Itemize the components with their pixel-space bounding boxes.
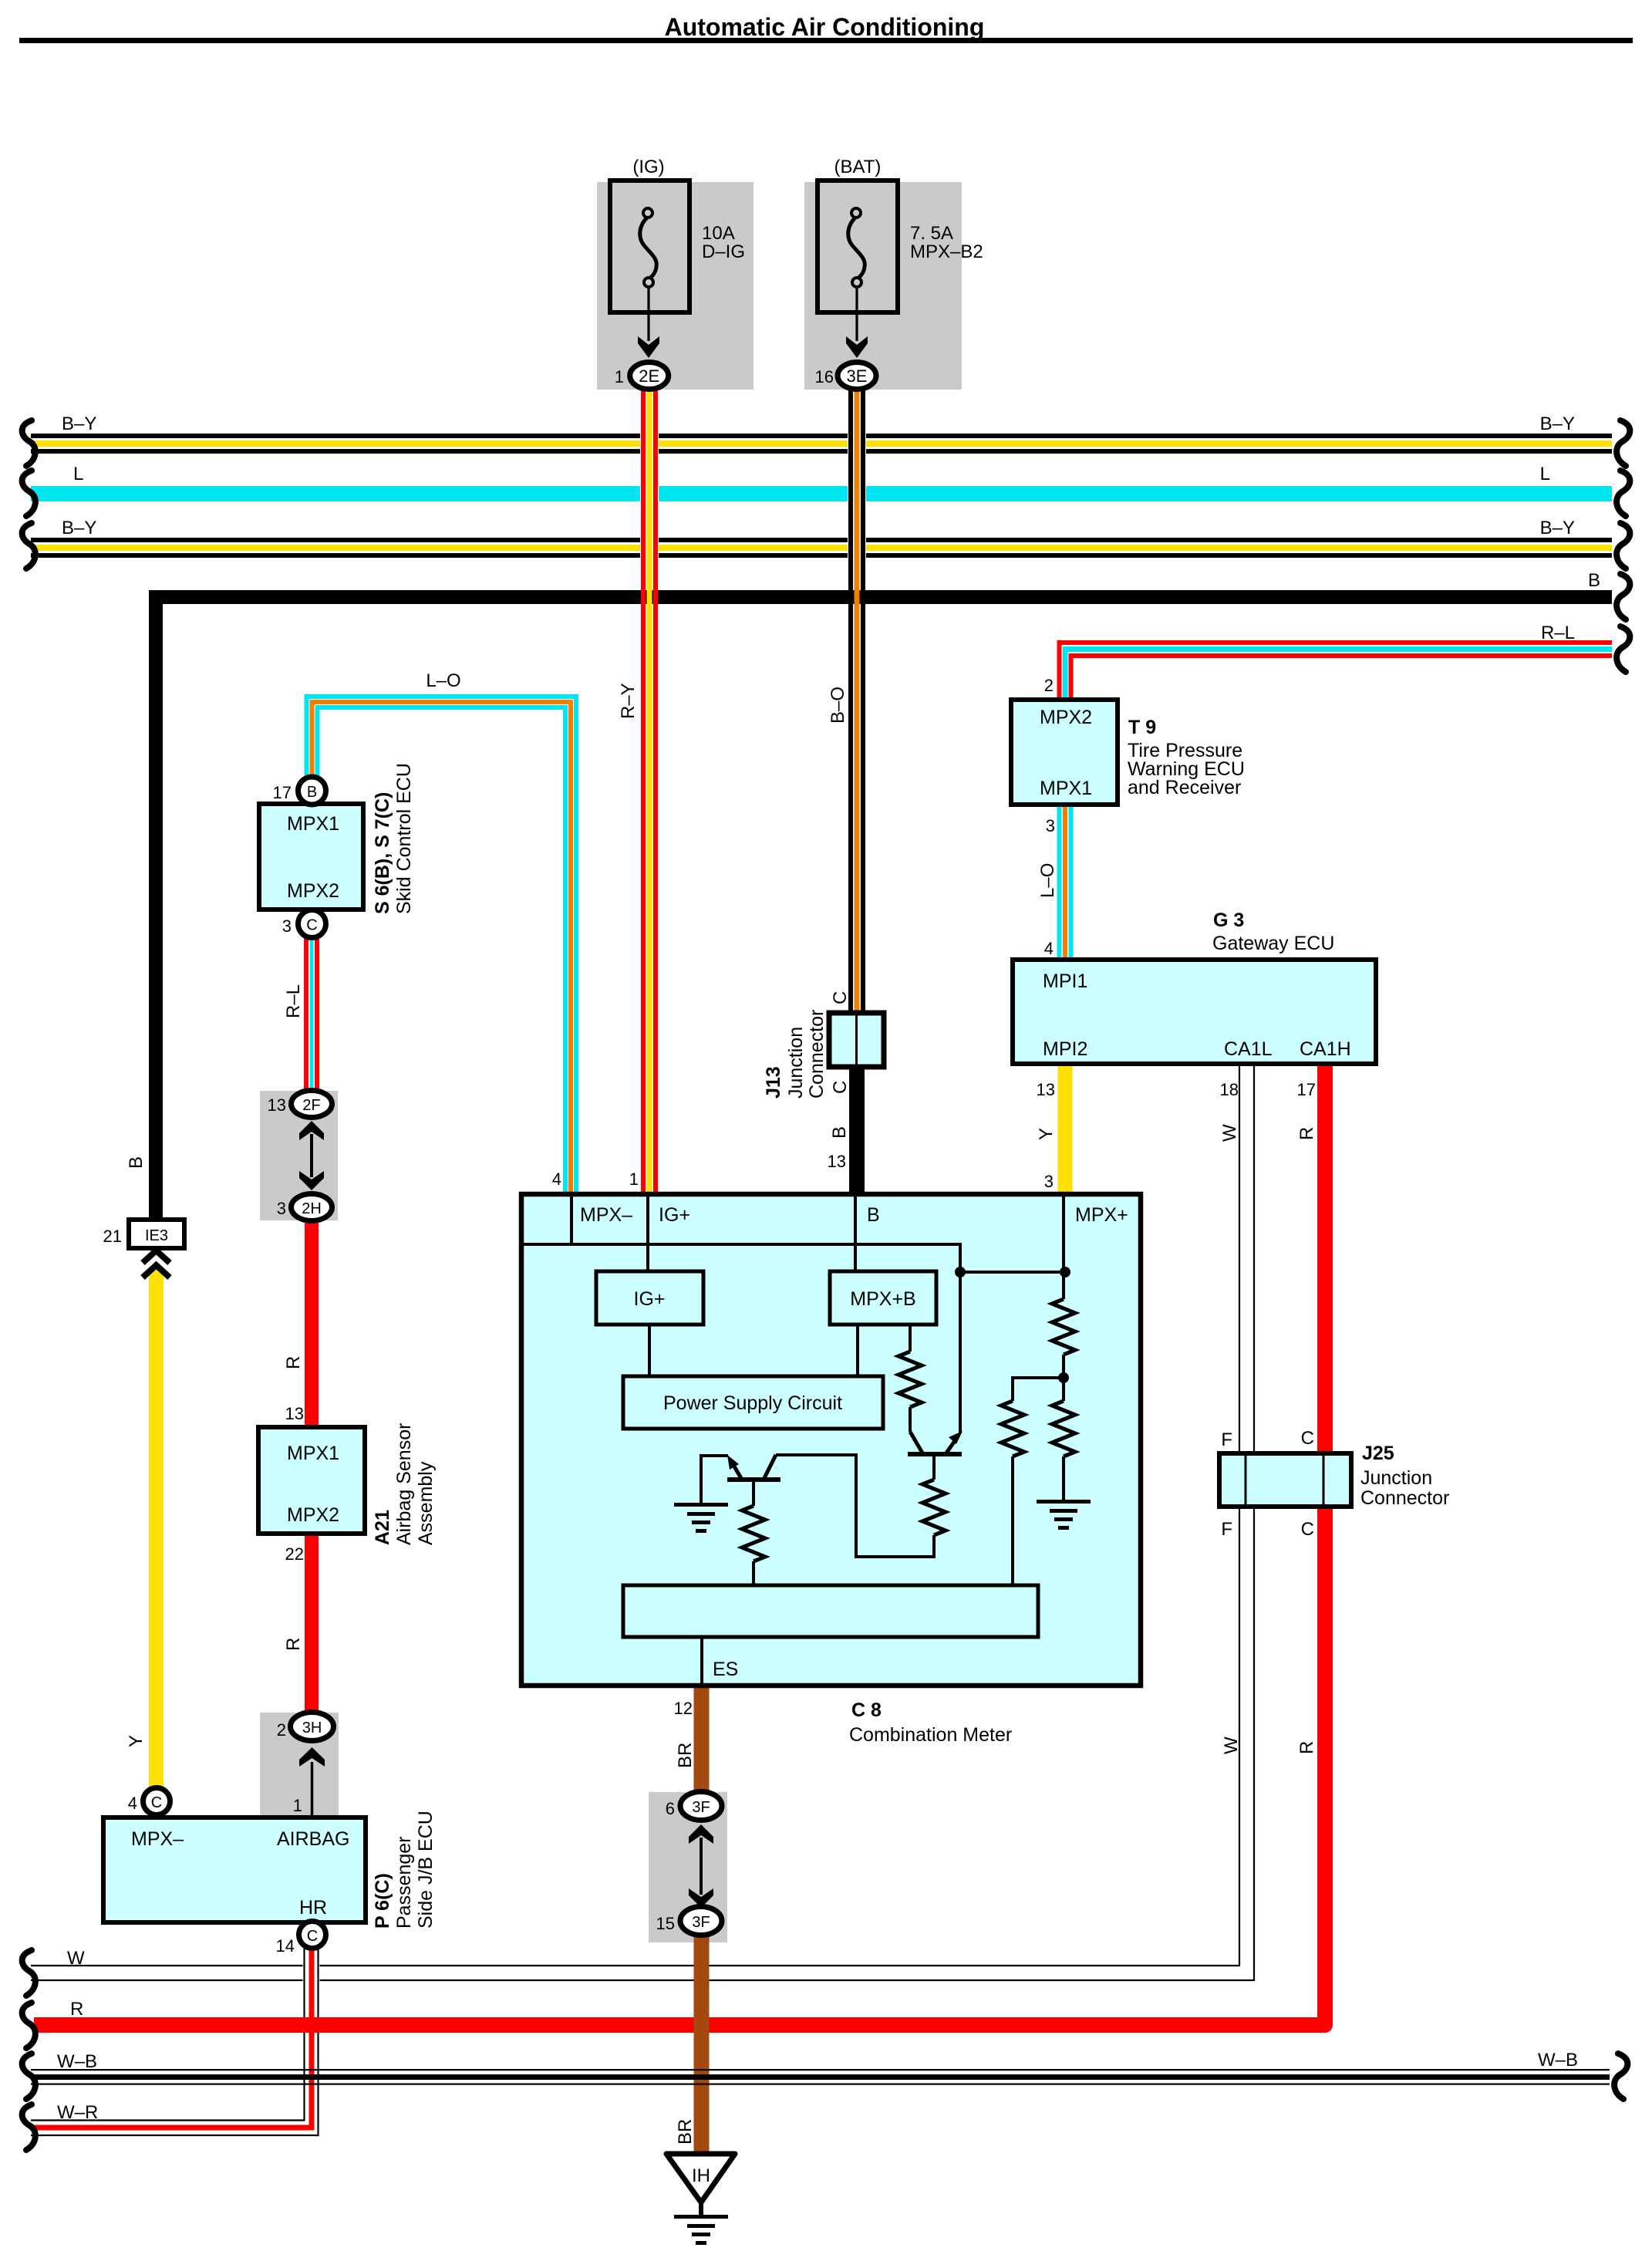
svg-text:W–B: W–B	[1538, 2050, 1578, 2071]
svg-text:G 3: G 3	[1213, 910, 1244, 931]
svg-text:B–O: B–O	[828, 687, 848, 724]
net MPX- internal path	[521, 1244, 960, 1272]
gateway ECU box G3	[1013, 960, 1376, 1064]
svg-text:3: 3	[277, 1199, 286, 1218]
svg-text:4: 4	[128, 1794, 137, 1813]
svg-text:B: B	[307, 784, 317, 801]
svg-text:B: B	[1588, 570, 1600, 591]
transistor Q2 collector with arrow to node	[946, 1436, 958, 1454]
svg-text:3H: 3H	[302, 1720, 322, 1736]
transistor Q1 base bar	[727, 1477, 780, 1482]
gray background of connector pair 2F/2H	[260, 1091, 338, 1220]
wire MPX+B box to power supply	[856, 1325, 859, 1376]
MPX+B internal box	[830, 1271, 936, 1325]
svg-text:17: 17	[1297, 1080, 1316, 1099]
svg-text:MPX1: MPX1	[287, 813, 339, 835]
svg-text:Power Supply Circuit: Power Supply Circuit	[663, 1392, 842, 1414]
IE3 connector box	[129, 1220, 184, 1248]
svg-text:B–Y: B–Y	[62, 518, 96, 538]
gray background of fuse IG	[597, 182, 754, 390]
break symbol right of bus B-Y top	[1617, 420, 1630, 466]
svg-text:MPX–: MPX–	[131, 1828, 184, 1850]
double chevron below IE3	[143, 1250, 170, 1263]
skid control ECU box S6/S7	[259, 804, 363, 910]
ground IH bars	[674, 2215, 728, 2219]
net B internal wire	[854, 1195, 857, 1271]
svg-text:A21: A21	[372, 1510, 393, 1545]
break symbol left of bus B-Y top	[22, 420, 35, 466]
svg-text:Passenger: Passenger	[393, 1836, 415, 1929]
svg-text:R–L: R–L	[283, 984, 304, 1018]
svg-text:C 8: C 8	[851, 1699, 882, 1721]
svg-text:3: 3	[1046, 816, 1055, 835]
svg-text:R: R	[1296, 1741, 1317, 1754]
wire L-O (skid ECU B to C8 MPX-)	[307, 697, 577, 1193]
svg-text:13: 13	[1037, 1080, 1055, 1099]
ground IH triangle	[666, 2154, 735, 2202]
wire R-L (skid ECU C to connector 2F)	[304, 937, 319, 1091]
wire from 3H to P6C AIRBAG	[311, 1762, 314, 1817]
wire BR (3F to IH ground)	[694, 1935, 710, 2154]
resistor MPX+ upper	[1052, 1299, 1075, 1355]
svg-text:L: L	[73, 464, 83, 484]
svg-text:2E: 2E	[639, 366, 659, 386]
net IG+ internal wire	[646, 1195, 649, 1271]
fuse IG symbol bottom terminal	[644, 278, 653, 287]
bus W (bottom, corner up to J25/CA1L)	[31, 1064, 1254, 1980]
bus B-Y (top)	[31, 434, 1612, 454]
svg-text:13: 13	[285, 1404, 304, 1423]
break symbol right of bus W-B	[1614, 2054, 1627, 2099]
svg-text:(BAT): (BAT)	[834, 157, 882, 177]
svg-text:IG+: IG+	[634, 1288, 666, 1310]
wire to middle node	[1062, 1355, 1065, 1378]
gray background of fuse BAT	[804, 182, 962, 390]
connector oval 3F bottom	[680, 1907, 722, 1936]
net MPX+ internal wire	[1062, 1195, 1065, 1299]
svg-text:MPX+B: MPX+B	[850, 1288, 915, 1310]
wire from fuse BAT to connector 3E	[855, 287, 858, 341]
svg-text:C: C	[307, 1928, 318, 1945]
break symbol right of bus R-L	[1617, 626, 1630, 672]
svg-text:B–Y: B–Y	[62, 413, 96, 434]
airbag sensor assembly box A21	[258, 1427, 365, 1534]
wire between node dots	[960, 1271, 1065, 1274]
IG+ internal box	[596, 1271, 703, 1325]
svg-text:Combination Meter: Combination Meter	[849, 1724, 1012, 1746]
svg-text:CA1H: CA1H	[1300, 1038, 1351, 1060]
wire B-O color stripes	[848, 389, 865, 1013]
resistor MPX+ lower	[1062, 1378, 1065, 1401]
arrow line 3F-3F	[700, 1838, 703, 1895]
svg-text:Gateway ECU: Gateway ECU	[1212, 933, 1334, 954]
svg-text:3F: 3F	[692, 1914, 710, 1931]
svg-text:R: R	[283, 1356, 304, 1369]
connector oval 2F	[292, 1091, 332, 1118]
bus L (cyan)	[31, 486, 1612, 501]
svg-text:Y: Y	[126, 1735, 147, 1747]
connector circle C of skid ECU	[298, 910, 326, 938]
arrow up inside 2F/2H block	[299, 1121, 324, 1140]
svg-text:MPX+: MPX+	[1075, 1204, 1128, 1226]
svg-text:B: B	[867, 1204, 880, 1226]
svg-text:C: C	[306, 917, 317, 934]
connector circle C pin4 of P6C	[143, 1788, 170, 1815]
svg-text:R: R	[1296, 1127, 1317, 1140]
ground IH stem	[699, 2202, 703, 2216]
bus B-Y (second)	[31, 538, 1612, 558]
bus R (thick red bottom, corner up to J25/CA1H)	[34, 1064, 1325, 2025]
svg-text:Y: Y	[1036, 1128, 1057, 1140]
wire L-O (T9 pin3 to G3 pin4)	[1057, 805, 1074, 960]
svg-text:12: 12	[674, 1699, 693, 1718]
svg-text:13: 13	[268, 1095, 286, 1115]
connector oval 2H	[292, 1194, 332, 1221]
svg-text:D–IG: D–IG	[702, 241, 745, 262]
svg-text:P 6(C): P 6(C)	[372, 1873, 393, 1929]
svg-text:L–O: L–O	[1037, 863, 1058, 898]
wire BR (C8 ES pin12 to 3F)	[694, 1688, 710, 1793]
svg-text:IE3: IE3	[145, 1227, 168, 1244]
transistor Q1 emitter with arrow	[731, 1461, 742, 1480]
svg-text:2: 2	[1044, 676, 1054, 695]
node dot middle right	[1058, 1372, 1069, 1383]
svg-text:Automatic Air Conditioning: Automatic Air Conditioning	[665, 13, 985, 41]
fuse IG symbol top terminal	[643, 208, 652, 218]
svg-text:(IG): (IG)	[632, 157, 664, 177]
svg-text:R: R	[70, 1999, 83, 2020]
svg-text:ES: ES	[713, 1659, 738, 1680]
svg-text:1: 1	[293, 1796, 302, 1815]
wire MPX+B box to resistor	[909, 1325, 912, 1352]
svg-text:3: 3	[1044, 1172, 1054, 1191]
svg-text:T 9: T 9	[1128, 717, 1156, 738]
wire B (J13 to C8 pin13)	[849, 1067, 865, 1192]
fuse 7.5A MPX-B2 box	[818, 181, 898, 312]
svg-text:MPX1: MPX1	[287, 1443, 339, 1464]
gray background of connector pair 3F/3F	[649, 1792, 727, 1942]
svg-text:Junction: Junction	[785, 1027, 807, 1099]
svg-text:3F: 3F	[692, 1799, 710, 1816]
combination meter box C8	[521, 1194, 1141, 1686]
fuse BAT symbol S-curve	[848, 218, 865, 278]
connector oval 2E	[630, 363, 669, 390]
svg-text:MPX2: MPX2	[287, 1504, 339, 1526]
svg-text:15: 15	[656, 1914, 675, 1933]
tire pressure warning ECU box T9	[1011, 700, 1118, 805]
svg-text:4: 4	[1044, 939, 1054, 958]
break symbol right of bus B-Y second	[1617, 523, 1630, 569]
connector circle B of skid ECU	[298, 777, 326, 805]
svg-text:3: 3	[282, 916, 292, 936]
svg-text:MPI1: MPI1	[1043, 970, 1087, 992]
svg-text:BR: BR	[675, 2119, 696, 2145]
white base of wire B-O (fuse 3E to J13)	[848, 389, 866, 1013]
break symbol left of bus L	[22, 471, 35, 516]
wire ES from long box to C8 edge	[700, 1637, 703, 1688]
svg-text:F: F	[1221, 1519, 1232, 1540]
svg-text:L–O: L–O	[426, 670, 460, 691]
svg-text:7. 5A: 7. 5A	[910, 223, 953, 244]
ground symbol inside C8 left	[674, 1503, 728, 1533]
svg-text:MPX1: MPX1	[1040, 778, 1092, 799]
svg-text:Junction: Junction	[1360, 1467, 1432, 1489]
svg-text:B: B	[126, 1156, 147, 1169]
svg-text:1: 1	[629, 1169, 639, 1189]
svg-text:MPI2: MPI2	[1043, 1038, 1087, 1060]
resistor under Q1	[742, 1506, 765, 1561]
svg-text:S 6(B), S 7(C): S 6(B), S 7(C)	[372, 792, 393, 914]
svg-text:16: 16	[815, 367, 834, 386]
svg-text:C: C	[1301, 1519, 1314, 1540]
bus R-L (right, corner down to T9 pin2)	[1060, 643, 1613, 700]
transistor Q2 base bar	[908, 1452, 962, 1456]
wire R-Y color stripes	[641, 389, 658, 1193]
svg-text:R: R	[283, 1638, 304, 1651]
fuse BAT symbol top terminal	[851, 208, 861, 218]
svg-text:W–B: W–B	[57, 2051, 97, 2072]
svg-text:W: W	[1219, 1124, 1240, 1142]
gray background of connector 3H	[260, 1713, 339, 1817]
wire Q1 emitter to ground	[701, 1456, 728, 1504]
arrow up inside 3F block	[689, 1824, 713, 1844]
ground symbol inside C8 right	[1037, 1500, 1091, 1530]
arrow down inside 2F/2H block	[299, 1171, 324, 1190]
power supply circuit box	[623, 1376, 883, 1429]
svg-text:MPX–: MPX–	[580, 1204, 632, 1226]
svg-text:BR: BR	[675, 1743, 696, 1768]
parallel resistor	[1001, 1401, 1024, 1456]
svg-text:Connector: Connector	[1360, 1487, 1449, 1509]
passenger side J/B ECU box P6(C)	[103, 1817, 366, 1922]
svg-text:10A: 10A	[702, 223, 735, 244]
connector oval 3E	[838, 363, 876, 390]
svg-text:B: B	[829, 1126, 850, 1139]
svg-text:6: 6	[666, 1799, 675, 1818]
svg-text:4: 4	[552, 1169, 561, 1189]
svg-text:2F: 2F	[302, 1097, 320, 1114]
svg-text:J13: J13	[763, 1066, 784, 1099]
svg-text:and Receiver: and Receiver	[1128, 777, 1241, 798]
svg-text:CA1L: CA1L	[1224, 1038, 1273, 1060]
svg-text:Airbag Sensor: Airbag Sensor	[393, 1423, 415, 1545]
svg-text:HR: HR	[299, 1897, 327, 1919]
node dot left on MPX- net	[955, 1267, 966, 1277]
wire IG+ box to power supply	[648, 1325, 651, 1376]
svg-text:MPX2: MPX2	[1040, 707, 1092, 728]
svg-text:2H: 2H	[302, 1200, 322, 1217]
svg-text:R–L: R–L	[1541, 623, 1575, 643]
svg-text:Assembly: Assembly	[415, 1461, 437, 1545]
wire Y (IE3 to P6C pin4)	[149, 1269, 164, 1788]
svg-text:IG+: IG+	[659, 1204, 690, 1226]
svg-text:17: 17	[273, 783, 292, 802]
break symbol left of bus W-B	[22, 2054, 35, 2099]
junction connector J13	[829, 1013, 884, 1067]
svg-text:IH: IH	[692, 2165, 710, 2186]
transistor Q2 emitter diagonal	[910, 1432, 923, 1454]
connector oval 3H	[291, 1713, 334, 1741]
bottom long box inside C8	[623, 1585, 1038, 1637]
arrow into connector 2E	[638, 336, 659, 358]
wire R (2H to A21)	[305, 1221, 319, 1427]
svg-text:14: 14	[276, 1936, 295, 1956]
break symbol left of bus W-R	[22, 2104, 35, 2150]
svg-text:Skid Control ECU: Skid Control ECU	[393, 763, 415, 914]
wire Q1 base down through resistor	[752, 1480, 755, 1506]
arrow into connector 3E	[846, 336, 868, 358]
wire resistor to ground	[1062, 1456, 1065, 1501]
connector circle C pin14 of P6C	[299, 1922, 326, 1949]
svg-text:21: 21	[103, 1227, 122, 1246]
wire snake from Q1 collector to Q2 resistor	[776, 1455, 934, 1557]
break symbol left of bus R	[22, 2003, 35, 2048]
svg-text:MPX2: MPX2	[287, 880, 339, 902]
wire node to Q2 collector	[959, 1272, 962, 1433]
fuse 10A D-IG box	[610, 181, 689, 312]
fuse BAT symbol bottom terminal	[852, 278, 861, 287]
svg-text:R–Y: R–Y	[618, 683, 639, 719]
wire from middle node left to parallel resistor	[1013, 1378, 1064, 1401]
break symbol right of bus B	[1617, 574, 1630, 619]
fuse IG symbol S-curve	[640, 218, 657, 278]
wire Y (G3 MPI2 to C8 MPX+)	[1058, 1064, 1073, 1192]
break symbol left of bus B-Y second	[22, 523, 35, 569]
svg-text:22: 22	[285, 1544, 304, 1564]
resistor under Q2	[922, 1480, 946, 1535]
svg-text:F: F	[1221, 1429, 1232, 1450]
svg-text:B–Y: B–Y	[1540, 518, 1575, 538]
arrow up inside 3H block	[299, 1747, 325, 1767]
svg-text:L: L	[1540, 464, 1550, 484]
bus B (thick black, corner down to IE3)	[156, 597, 1612, 1220]
wire resistor to bottom long box	[752, 1561, 755, 1585]
transistor Q1 collector diagonal	[764, 1455, 776, 1480]
svg-text:13: 13	[828, 1152, 846, 1171]
arrow line 2F-2H	[310, 1134, 313, 1177]
svg-text:Side J/B ECU: Side J/B ECU	[415, 1811, 437, 1929]
junction connector J25	[1219, 1453, 1351, 1507]
svg-text:C: C	[830, 1081, 851, 1094]
white base of wire R-Y (fuse 2E to C8 IG+)	[640, 389, 659, 1193]
svg-text:Connector: Connector	[806, 1010, 828, 1099]
break symbol right of bus L	[1617, 471, 1630, 516]
break symbol left of bus W	[22, 1950, 35, 1996]
svg-text:W–R: W–R	[57, 2102, 98, 2123]
svg-text:1: 1	[615, 367, 624, 386]
svg-text:C: C	[1301, 1428, 1314, 1449]
wire resistor to transistor Q2 emitter	[909, 1407, 912, 1432]
svg-text:2: 2	[277, 1720, 286, 1740]
svg-text:C: C	[830, 991, 851, 1004]
svg-text:C: C	[151, 1794, 162, 1811]
wire R (A21 to 3H)	[305, 1534, 319, 1713]
connector oval 3F top	[680, 1792, 722, 1821]
arrow down inside 3F block	[689, 1888, 713, 1908]
bus W-B (bottom)	[31, 2069, 1610, 2085]
svg-text:W: W	[67, 1948, 85, 1969]
wire Q2 base down through resistor	[932, 1454, 936, 1480]
wire parallel resistor to bottom long box	[1011, 1456, 1014, 1585]
svg-text:W: W	[1221, 1736, 1242, 1754]
resistor under MPX+B	[898, 1352, 922, 1407]
svg-text:AIRBAG: AIRBAG	[277, 1828, 349, 1850]
svg-text:J25: J25	[1362, 1443, 1394, 1464]
wire from fuse IG to connector 2E	[647, 287, 649, 341]
svg-text:18: 18	[1220, 1080, 1239, 1099]
svg-text:MPX–B2: MPX–B2	[910, 241, 983, 262]
wire W-R (P6C pin14 down, corner left into bus W-R)	[31, 1949, 320, 2135]
svg-text:B–Y: B–Y	[1540, 413, 1575, 434]
node dot right on MPX+ net	[1060, 1267, 1070, 1277]
title underline	[19, 38, 1633, 43]
svg-text:3E: 3E	[847, 366, 868, 386]
